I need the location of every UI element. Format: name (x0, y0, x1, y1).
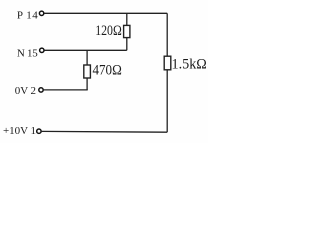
wire 0V rail (44, 89, 88, 91)
wire right vertical upper (166, 13, 168, 56)
wire 120R bottom link (126, 38, 128, 51)
wire 470R top link (86, 50, 88, 65)
wire 470R bottom link (86, 78, 88, 90)
resistor R2 470ohm body (84, 65, 91, 78)
wire N15 rail (45, 49, 127, 51)
svg-text:1.5kΩ: 1.5kΩ (172, 57, 208, 73)
wire right vertical lower (166, 70, 168, 132)
wire 120R top link (126, 13, 128, 25)
wire P14 top rail (44, 12, 167, 14)
terminal +10V (pin 1) (37, 129, 41, 133)
terminal P (pin 14) (39, 11, 43, 15)
svg-text:0V 2: 0V 2 (15, 85, 36, 97)
svg-text:N 15: N 15 (17, 47, 38, 59)
svg-text:470Ω: 470Ω (93, 63, 122, 79)
svg-text:P 14: P 14 (17, 9, 38, 21)
terminal N (pin 15) (40, 48, 44, 52)
terminal 0V (pin 2) (39, 88, 43, 92)
wire +10V bottom rail (42, 130, 168, 133)
svg-text:+10V 1: +10V 1 (3, 125, 36, 137)
resistor R3 1.5kohm body (164, 56, 171, 70)
svg-text:120Ω: 120Ω (95, 23, 122, 39)
resistor R1 120ohm body (124, 25, 130, 37)
